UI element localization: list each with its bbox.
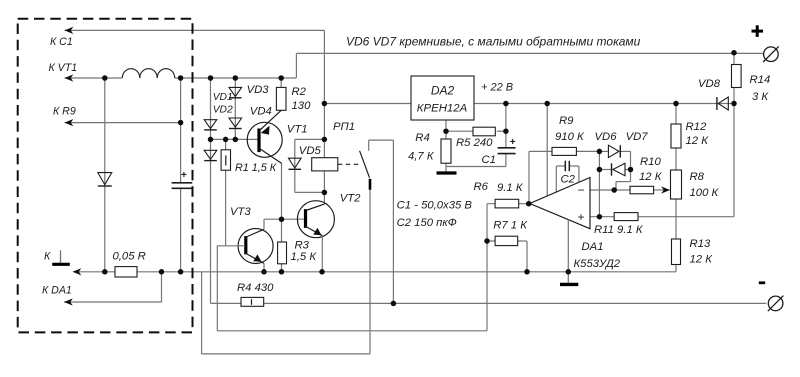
svg-text:R7 1 К: R7 1 К (493, 220, 528, 232)
svg-text:VT1: VT1 (287, 124, 308, 136)
svg-text:12 К: 12 К (690, 254, 714, 266)
svg-text:R10: R10 (640, 156, 661, 168)
svg-text:К С1: К С1 (50, 36, 73, 48)
svg-text:R4 430: R4 430 (237, 282, 274, 294)
svg-text:R1 1,5 К: R1 1,5 К (235, 162, 277, 174)
svg-text:VD6: VD6 (595, 131, 618, 143)
svg-text:VD2: VD2 (213, 105, 233, 116)
svg-text:130: 130 (292, 100, 312, 112)
svg-text:+: + (181, 170, 187, 181)
svg-text:VT2: VT2 (340, 193, 361, 205)
svg-text:VD6 VD7 кремнивые, с малыми: VD6 VD7 кремнивые, с малыми обратными то… (346, 35, 641, 49)
svg-text:−: − (577, 183, 584, 197)
svg-text:R3: R3 (295, 240, 310, 252)
svg-text:100 К: 100 К (690, 187, 720, 199)
svg-text:R13: R13 (690, 238, 711, 250)
svg-text:К VT1: К VT1 (49, 62, 78, 74)
svg-text:С1 - 50,0х35 В: С1 - 50,0х35 В (397, 199, 473, 211)
svg-text:1,5 К: 1,5 К (291, 251, 318, 263)
svg-text:9.1 К: 9.1 К (497, 182, 524, 194)
svg-text:С2: С2 (561, 174, 576, 186)
svg-text:VD3: VD3 (247, 84, 270, 96)
svg-text:R2: R2 (292, 86, 307, 98)
svg-text:VD8: VD8 (698, 78, 721, 90)
svg-text:К553УД2: К553УД2 (574, 258, 621, 270)
svg-text:3 К: 3 К (752, 91, 769, 103)
svg-text:+: + (510, 137, 516, 148)
svg-text:R4: R4 (415, 132, 429, 144)
svg-text:R9: R9 (559, 115, 574, 127)
svg-text:910 К: 910 К (555, 131, 585, 143)
svg-text:К DA1: К DA1 (42, 285, 72, 297)
svg-text:КРЕН12А: КРЕН12А (417, 103, 467, 115)
svg-text:R12: R12 (686, 121, 707, 133)
svg-text:R8: R8 (690, 171, 705, 183)
svg-text:С2 150 пкФ: С2 150 пкФ (397, 217, 457, 229)
svg-text:+ 22 В: + 22 В (481, 82, 513, 94)
svg-text:0,05 R: 0,05 R (113, 251, 146, 263)
svg-text:С1: С1 (482, 154, 496, 166)
svg-text:R6: R6 (474, 181, 489, 193)
svg-text:R14: R14 (750, 74, 771, 86)
svg-text:VD5: VD5 (299, 145, 322, 157)
svg-text:К R9: К R9 (53, 106, 76, 118)
svg-text:DA1: DA1 (582, 241, 604, 253)
svg-text:VD4: VD4 (250, 106, 272, 118)
svg-text:VD1: VD1 (213, 92, 233, 103)
svg-text:R5 240: R5 240 (456, 137, 493, 149)
svg-text:DA2: DA2 (431, 84, 455, 98)
svg-text:К: К (44, 251, 51, 263)
svg-text:РП1: РП1 (333, 121, 355, 133)
svg-text:12 К: 12 К (639, 171, 663, 183)
svg-text:+: + (577, 210, 584, 224)
svg-text:VT3: VT3 (230, 206, 251, 218)
svg-text:VD7: VD7 (626, 131, 649, 143)
svg-text:R11 9.1 К: R11 9.1 К (594, 224, 644, 236)
svg-text:4,7 К: 4,7 К (408, 151, 435, 163)
svg-text:12 К: 12 К (686, 135, 710, 147)
